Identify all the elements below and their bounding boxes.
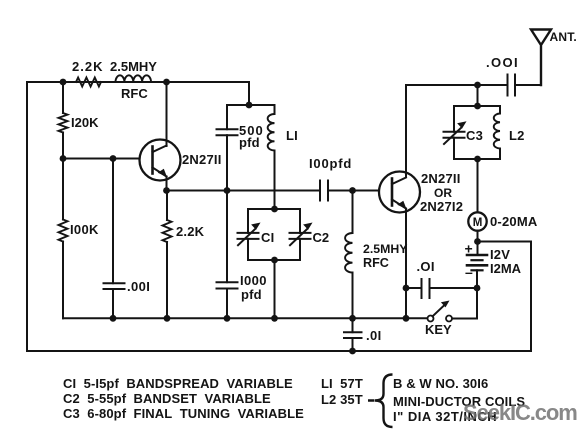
- wire meter to battery plus: [477, 231, 479, 255]
- resistor 2.2K (emitter): [163, 220, 172, 242]
- junction base / bypass: [110, 155, 117, 162]
- svg-text:.OOI: .OOI: [486, 55, 519, 70]
- wire RFC bottom to ground rail: [352, 273, 354, 319]
- junction Q2 base node: [349, 187, 356, 194]
- junction top rail / Q1 collector: [163, 79, 170, 86]
- capacitor 500pfd (tank): [217, 129, 238, 135]
- svg-text:I000: I000: [240, 273, 267, 288]
- wire top rail (B+ feed) from left corner to first tank: [27, 81, 249, 83]
- svg-text:C3 6-80pf FINAL TUNING VAR: C3 6-80pf FINAL TUNING VARIABLE: [63, 406, 304, 421]
- wire C2 top lead: [299, 209, 301, 233]
- svg-text:C3: C3: [466, 128, 483, 143]
- svg-text:KEY: KEY: [425, 322, 452, 337]
- svg-text:I2MA: I2MA: [490, 261, 522, 276]
- svg-text:2N27II: 2N27II: [182, 152, 222, 167]
- svg-text:pfd: pfd: [239, 135, 260, 150]
- svg-text:2.5MHY: 2.5MHY: [110, 59, 157, 74]
- svg-text:SeekIC.com: SeekIC.com: [463, 400, 577, 425]
- svg-text:2.2K: 2.2K: [176, 224, 205, 239]
- wire Q2 collector to antenna coupling node: [406, 84, 507, 86]
- wire C1/C2 box top: [248, 208, 300, 210]
- wire base node down to .001 bypass: [112, 159, 114, 284]
- note brace: [368, 375, 393, 428]
- wire C2 bottom lead: [299, 239, 301, 260]
- wire C1 bottom lead: [247, 239, 249, 260]
- wire ground rail to .01 bottom cap: [352, 318, 354, 332]
- capacitor 100pfd (interstage coupling): [320, 181, 328, 201]
- resistor 2.2K (collector feed): [76, 78, 101, 87]
- junction top rail / 120K: [60, 79, 67, 86]
- wire Q2 collector lead up: [405, 85, 407, 172]
- svg-text:.OI: .OI: [417, 259, 435, 274]
- svg-text:pfd: pfd: [241, 287, 262, 302]
- battery 12V: [467, 255, 487, 270]
- svg-text:–: –: [465, 264, 473, 280]
- wire inner ground rail to KEY: [63, 317, 428, 319]
- capacitor 1000pfd (emitter bypass): [217, 282, 238, 288]
- junction ground rail / .001: [110, 315, 117, 322]
- svg-text:CI: CI: [261, 230, 274, 245]
- wire .01 keying cap to battery minus node: [430, 287, 478, 289]
- capacitor .001 (antenna coupling): [508, 75, 516, 96]
- svg-text:LI: LI: [286, 128, 298, 143]
- wire 2.2K emitter resistor to ground rail: [166, 242, 168, 318]
- capacitor .01 (bottom keying filter): [344, 332, 362, 338]
- wire Q1 collector lead: [166, 82, 168, 146]
- svg-text:LI 57T: LI 57T: [321, 376, 363, 391]
- junction 500pfd / emitter wire: [224, 187, 231, 194]
- svg-text:L2: L2: [509, 128, 525, 143]
- inductor RFC 2.5MHY (collector choke): [116, 75, 152, 82]
- wire left outer vertical: [26, 82, 28, 351]
- svg-text:OR: OR: [434, 186, 452, 200]
- inductor L1 (oscillator tank coil): [268, 114, 275, 150]
- svg-text:ANT.: ANT.: [550, 30, 577, 44]
- wire 120K bottom lead: [62, 133, 64, 159]
- wire right outer vertical up to battery plus node: [480, 242, 531, 352]
- junction ground rail / 1000pfd: [224, 315, 231, 322]
- capacitor C3 6-80pf final tuning variable: [444, 128, 465, 144]
- wire Q2 base node down to 2.5MHY RFC: [352, 191, 354, 234]
- svg-text:C2: C2: [313, 230, 330, 245]
- svg-text:.00I: .00I: [127, 279, 150, 294]
- svg-text:+: +: [465, 241, 473, 257]
- svg-text:I00K: I00K: [70, 222, 99, 237]
- inductor RFC2 2.5MHY (Q2 base choke): [345, 233, 352, 273]
- wire Q1 base from bias divider: [63, 158, 140, 160]
- wire first tank left branch to 500pfd: [226, 105, 228, 129]
- inductor L2 (final tank coil): [494, 114, 500, 149]
- junction final tank bottom: [474, 156, 481, 163]
- wire Q2 base lead: [353, 190, 380, 192]
- transistor Q1 2N2711 oscillator: [140, 140, 181, 182]
- wire battery minus down to KEY contact: [452, 288, 477, 319]
- wire from base node down to 100K: [62, 159, 64, 220]
- junction battery minus node: [474, 285, 481, 292]
- wire C3 bottom lead: [453, 138, 455, 159]
- svg-text:C2 5-55pf BANDSET VARIABLE: C2 5-55pf BANDSET VARIABLE: [63, 391, 271, 406]
- capacitor C1 5-15pf bandspread variable: [238, 229, 259, 245]
- wire outer bottom rail (battery negative return): [27, 350, 531, 352]
- junction final tank top: [474, 103, 481, 110]
- junction battery plus node: [474, 238, 481, 245]
- wire 100pfd to Q2 base node: [328, 190, 353, 192]
- wire emitter node to ground rail / KEY: [405, 288, 407, 318]
- svg-text:2N27II: 2N27II: [421, 171, 461, 186]
- wire C1/C2 box bottom: [248, 259, 300, 261]
- wire battery bottom lead: [476, 270, 478, 288]
- svg-text:I00pfd: I00pfd: [309, 156, 352, 171]
- junction ground rail / 2.2K: [164, 315, 171, 322]
- key switch: [428, 305, 453, 322]
- svg-text:I20K: I20K: [71, 115, 99, 130]
- svg-text:RFC: RFC: [121, 86, 148, 101]
- wire L2 bottom lead: [499, 149, 501, 160]
- svg-text:2N27I2: 2N27I2: [420, 199, 463, 214]
- transistor Q2 2N2711/2N2712 final: [379, 172, 420, 214]
- wire .001 coupling cap to antenna: [515, 45, 541, 85]
- wire emitter node down to 1000pfd: [226, 191, 228, 283]
- svg-text:RFC: RFC: [363, 256, 389, 270]
- wire L2 top lead: [499, 106, 501, 114]
- wire C3 top lead: [453, 106, 455, 132]
- wire final tank bottom: [454, 158, 500, 160]
- wire L1 bottom lead to C1/C2 box (crosses emitter wire): [274, 151, 276, 210]
- wire tank bottom to meter: [477, 159, 479, 212]
- svg-text:L2 35T: L2 35T: [321, 392, 363, 407]
- resistor 120K (base bias upper): [59, 113, 68, 133]
- capacitor C2 5-55pf bandset variable: [290, 229, 311, 245]
- svg-text:0-20MA: 0-20MA: [490, 214, 538, 229]
- junction outer rail / .01: [349, 348, 356, 355]
- junction ground rail / Q2 emitter: [403, 315, 410, 322]
- wire L1 top lead: [274, 105, 276, 114]
- wire Q1 emitter lead: [166, 177, 168, 191]
- wire Q2 emitter lead down: [405, 213, 407, 289]
- junction first tank feed: [246, 102, 253, 109]
- meter M 0-20MA: [468, 212, 486, 230]
- wire emitter node to .01 keying cap: [406, 287, 422, 289]
- junction L1 / C1C2 box top: [271, 206, 278, 213]
- svg-text:I2V: I2V: [490, 247, 510, 262]
- svg-text:B & W NO. 30I6: B & W NO. 30I6: [393, 376, 488, 391]
- wire final tank top: [454, 105, 500, 107]
- capacitor .001 (base bypass): [104, 283, 125, 289]
- svg-text:M: M: [473, 217, 483, 229]
- svg-text:2.2K: 2.2K: [72, 59, 103, 74]
- wire first tank top: [227, 104, 275, 106]
- wire emitter node to 2.2K emitter resistor: [166, 191, 168, 221]
- resistor 100K (base bias lower): [59, 220, 68, 242]
- wire C1/C2 box bottom to ground rail: [274, 260, 276, 318]
- wire antenna node down to final tank: [477, 85, 479, 106]
- wire C1 top lead: [247, 209, 249, 233]
- junction ground rail / C1C2: [271, 315, 278, 322]
- junction ground rail / RFC2: [349, 315, 356, 322]
- wire emitter node to 100pfd: [167, 190, 321, 192]
- wire 100K bottom lead: [62, 242, 64, 319]
- wire 120K top lead: [62, 82, 64, 113]
- svg-text:CI 5-I5pf BANDSPREAD VARIAB: CI 5-I5pf BANDSPREAD VARIABLE: [63, 376, 293, 391]
- junction Q1 emitter node: [163, 187, 170, 194]
- wire corner down to first tank top: [248, 82, 250, 105]
- antenna: [531, 30, 551, 86]
- svg-text:.0I: .0I: [366, 328, 382, 343]
- capacitor .01 (key click filter): [422, 279, 430, 298]
- wire .01 bottom cap to outer rail: [352, 338, 354, 351]
- wire .001 bypass to ground rail: [112, 289, 114, 318]
- junction antenna node: [474, 82, 481, 89]
- wire 1000pfd to ground rail: [226, 289, 228, 319]
- junction C1C2 box bottom: [271, 257, 278, 264]
- junction Q2 emitter / key cap: [403, 285, 410, 292]
- junction base divider: [60, 155, 67, 162]
- wire 500pfd to emitter node: [226, 135, 228, 190]
- svg-text:2.5MHY: 2.5MHY: [363, 242, 407, 256]
